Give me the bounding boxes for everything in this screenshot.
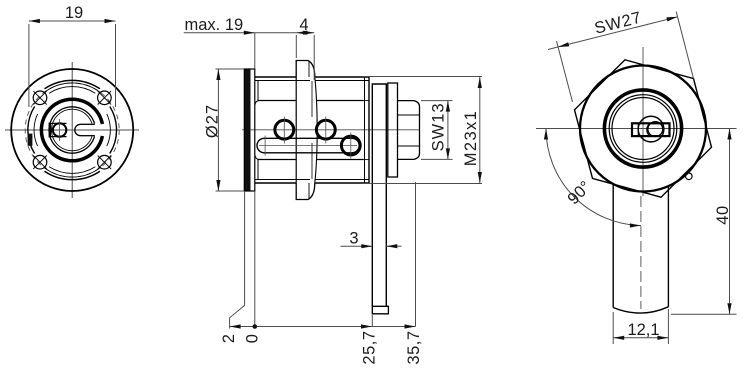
dim SW13 ext top (421, 100, 453, 102)
svg-text:40: 40 (714, 205, 732, 224)
dim 2 arrow (230, 324, 241, 328)
dim 4 arrow left (296, 31, 307, 35)
thin ring 1 (609, 95, 677, 163)
plug step vertical bottom (257, 160, 259, 180)
bezel side arc left (28, 107, 35, 154)
dim 40 arrow top (727, 129, 731, 140)
plug step line top (258, 100, 364, 102)
dim SW27 ext right (676, 12, 693, 79)
dim 19 extension right (115, 24, 117, 107)
plug inner circle 1 (49, 107, 94, 153)
dim 35,7 arrow (405, 324, 416, 328)
dim SW13 arrow bottom (446, 148, 450, 159)
plug step line bottom (258, 159, 364, 161)
outer body circle (11, 69, 133, 191)
dim SW27 line (548, 17, 678, 50)
pin 2 vertical tick (325, 117, 327, 144)
dim SW13 ext bottom (421, 158, 453, 160)
dim O27 ext bottom (216, 190, 245, 192)
cam plate (372, 84, 386, 306)
washer disc (388, 83, 398, 177)
body bottom edge (255, 182, 369, 184)
cam dashed centerline (640, 196, 642, 309)
cam foot (372, 306, 388, 314)
dim M23x1 ext top (362, 76, 482, 78)
cam arm right edge (667, 187, 669, 307)
dim 3 arrow right (386, 244, 397, 248)
dim M23x1 ext bottom (362, 183, 482, 185)
dim SW27 arrow left (558, 42, 569, 47)
outer circle (580, 66, 706, 192)
cam arm bottom arc (613, 307, 668, 313)
dim 19 arrow right (105, 19, 116, 23)
slot centerline (259, 145, 357, 147)
side inner arc left (34, 114, 38, 146)
bezel bottom arc inner (49, 167, 95, 174)
plug step fillet top (255, 101, 260, 106)
keyway notch bottom edge (81, 135, 95, 137)
dim 40 ext top (708, 128, 737, 130)
cam arm left edge (612, 185, 614, 308)
screw cross bottom-left (33, 156, 46, 169)
screw hole bottom-left (33, 155, 47, 169)
dim O27 arrow bottom (216, 180, 220, 191)
plug inner circle 2 (51, 109, 92, 151)
bottom dim line (230, 326, 416, 328)
dim 3 arrow left (361, 244, 372, 248)
pin circle 3 (341, 136, 360, 155)
dim 12,1 line (613, 337, 668, 339)
hex inner line bottom (398, 145, 420, 147)
plug step vertical top (257, 81, 259, 101)
centerline vertical (71, 62, 73, 198)
pin circle 2 (316, 120, 335, 139)
dim 4 ext right (313, 35, 315, 80)
screw hole top-left (33, 91, 47, 105)
body groove step top (365, 99, 370, 101)
dim max19/4 line (184, 32, 315, 34)
dim 12,1 arrow right (657, 336, 668, 340)
detent bump (686, 173, 693, 180)
bent extension for 2 (230, 191, 245, 329)
hex nut SW27 (575, 60, 712, 197)
keyway slot rect (632, 123, 670, 136)
nut outline (296, 61, 315, 200)
dim 90 arrow top (544, 129, 548, 140)
bezel side arc right (110, 107, 117, 154)
flange front face (filled) (244, 69, 250, 191)
body top edge (255, 76, 369, 78)
keyway slot top edge (50, 122, 67, 124)
svg-text:25,7: 25,7 (361, 330, 379, 364)
nut chamfer inner line bottom (308, 183, 310, 200)
keyway slot left cap (49, 123, 51, 138)
dim SW13 line (447, 101, 449, 160)
keyway plug circle (638, 116, 664, 142)
dim O27 arrow top (216, 69, 220, 80)
nut left edge through body (295, 77, 297, 183)
pin 1 vertical tick (283, 117, 285, 144)
dim M23x1 arrow top (478, 77, 482, 88)
dim 19 extension left (28, 24, 30, 107)
keyway divider bar (637, 123, 639, 136)
dim O27 ext top (216, 68, 245, 70)
keyway notch left arc (75, 124, 81, 135)
slot left cross tick (264, 136, 266, 156)
body rear groove (364, 77, 366, 183)
plug step fillet bottom (255, 155, 260, 160)
dim M23x1 arrow bottom (478, 172, 482, 183)
dim 90 arrow bottom (630, 223, 641, 227)
dim 90 arc (546, 129, 641, 226)
dim 25,7 arrow (361, 324, 372, 328)
pin circle 1 (275, 120, 294, 139)
centerline horizontal (536, 128, 714, 130)
svg-text:4: 4 (299, 16, 308, 34)
thin ring 2 (612, 98, 674, 160)
bezel bottom arc outer (45, 171, 100, 179)
dim 3 line left (340, 245, 372, 247)
dim SW13 arrow top (446, 101, 450, 112)
plug thick ring (C shape, gap right) (41, 99, 102, 161)
screw hole bottom-right (98, 155, 112, 169)
dim 40 ext bottom (671, 313, 737, 315)
body bottom inner line (255, 179, 369, 181)
dim SW27 ext left (557, 41, 573, 102)
dim 3 line right (386, 245, 401, 247)
dim 12,1 ext left (612, 312, 614, 344)
max19 arrow (244, 31, 255, 35)
bezel top arc outer (45, 80, 100, 88)
datum dot (253, 324, 258, 329)
svg-text:3: 3 (349, 230, 358, 248)
svg-text:SW13: SW13 (430, 102, 448, 151)
dim 25,7 ext (371, 315, 373, 327)
body top inner line (255, 80, 369, 82)
dim M23x1 line (479, 77, 481, 183)
hex inner line top (398, 114, 420, 116)
detent black mark (28, 134, 33, 146)
flange outline (244, 69, 255, 191)
svg-text:19: 19 (65, 4, 83, 22)
svg-text:M23x1: M23x1 (462, 110, 480, 167)
datum ext top (254, 33, 256, 69)
keyway slot bottom edge (50, 136, 67, 138)
svg-text:max. 19: max. 19 (185, 16, 244, 34)
centerline horizontal (5, 129, 139, 131)
svg-text:2: 2 (220, 334, 238, 343)
keyway pin circle (53, 123, 66, 136)
dim 19 line (29, 20, 116, 22)
keyway inner circle (648, 122, 663, 137)
screw cross bottom-right (98, 156, 111, 169)
screw cross top-left (33, 91, 46, 104)
bezel bottom arc mid (45, 168, 100, 177)
svg-text:0: 0 (244, 334, 262, 343)
side inner arc right (107, 114, 111, 146)
hex nut SW13 outline (398, 101, 420, 160)
body groove step bottom (365, 159, 370, 161)
svg-text:35,7: 35,7 (405, 330, 423, 364)
slot bar (257, 138, 359, 153)
centerline (242, 129, 420, 131)
dim SW27 arrow right (666, 17, 677, 22)
thread dashed circle (25, 83, 119, 177)
svg-text:Ø27: Ø27 (204, 104, 222, 138)
dim 12,1 ext right (667, 309, 669, 344)
dim 4 arrow right (303, 31, 314, 35)
pin 3 vertical tick (350, 133, 352, 159)
keyway inner arc (647, 123, 651, 136)
nut chamfer inner line top (308, 61, 310, 78)
dim 35,7 ext (415, 182, 417, 327)
dim 4 ext left (295, 35, 297, 58)
nut flat edge mid (315, 77, 317, 183)
svg-text:12,1: 12,1 (627, 321, 659, 339)
bezel top arc mid (45, 83, 100, 92)
nut inner edge lines (311, 81, 313, 179)
screw cross top-right (98, 91, 111, 104)
dim 40 line (729, 129, 731, 315)
keyway pin vertical tick (59, 119, 61, 141)
dim 40 arrow bottom (727, 303, 731, 314)
screw hole top-right (98, 91, 112, 105)
keyway notch top edge (81, 123, 95, 125)
datum ext bottom (254, 191, 256, 327)
dim 12,1 arrow left (613, 336, 624, 340)
dim O27 line (217, 69, 219, 191)
centerline vertical (642, 47, 644, 196)
bezel top arc inner (49, 87, 95, 94)
dim 19 arrow left (29, 19, 40, 23)
body rear edge (368, 77, 370, 183)
thick ring (604, 90, 681, 167)
